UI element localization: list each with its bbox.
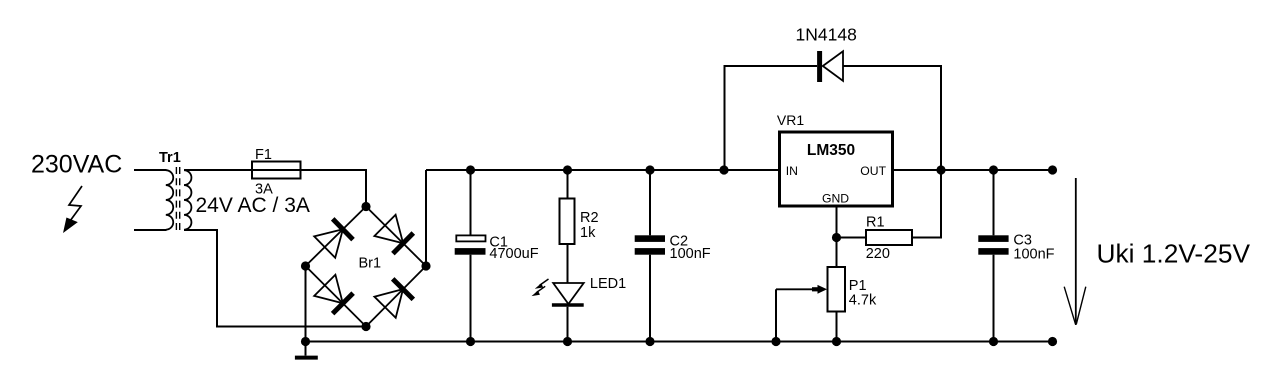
LED1 arrows bbox=[540, 279, 549, 285]
wire diode branch left bbox=[725, 66, 818, 170]
node R2 top bbox=[563, 165, 572, 174]
node LED1 bottom bbox=[563, 337, 572, 346]
regulator VR1 box bbox=[780, 132, 893, 206]
wire out rail bbox=[893, 169, 1053, 171]
svg-text:LED1: LED1 bbox=[590, 276, 626, 292]
node out diode R1 bbox=[936, 165, 945, 174]
svg-text:3A: 3A bbox=[255, 182, 273, 198]
node diode branch left bbox=[719, 165, 728, 174]
svg-text:Uki 1.2V-25V: Uki 1.2V-25V bbox=[1097, 239, 1251, 269]
wire secondary top to fuse bbox=[184, 169, 252, 171]
node bridge right bbox=[421, 261, 430, 270]
diode 1N4148 triangle bbox=[823, 51, 843, 81]
node bridge top bbox=[361, 202, 370, 211]
svg-text:LM350: LM350 bbox=[807, 142, 855, 159]
wire P1 bottom bbox=[836, 312, 838, 342]
resistor R1 bbox=[866, 230, 912, 245]
wire bridge arm left-bottom bbox=[306, 266, 367, 327]
wire R2 to LED1 bbox=[567, 244, 569, 283]
node C1 bottom bbox=[466, 337, 475, 346]
fuse F1 bbox=[252, 169, 301, 171]
wire R1 to out bbox=[912, 67, 941, 238]
wire C1 bottom bbox=[470, 255, 472, 342]
transformer Tr1 primary coil bbox=[166, 170, 173, 230]
node bridge bottom bbox=[361, 322, 370, 331]
bridge diode bottom-right bbox=[374, 289, 403, 318]
node wiper ground bbox=[771, 337, 780, 346]
resistor R2 bbox=[560, 199, 575, 245]
node ground rail at bridge bbox=[301, 337, 310, 346]
wire bottom ground rail bbox=[306, 341, 1053, 343]
wire primary top bbox=[134, 169, 167, 171]
wire LED1 bottom bbox=[567, 307, 569, 342]
svg-text:1N4148: 1N4148 bbox=[796, 25, 857, 45]
wire wiper down bbox=[775, 289, 777, 341]
node bridge left bbox=[301, 261, 310, 270]
wire adj to P1 bbox=[836, 238, 838, 268]
svg-text:Br1: Br1 bbox=[359, 256, 382, 272]
LED1 triangle bbox=[553, 283, 584, 304]
node C3 bottom bbox=[989, 337, 998, 346]
ground symbol bbox=[305, 342, 307, 356]
svg-text:220: 220 bbox=[866, 246, 890, 262]
svg-text:R1: R1 bbox=[866, 215, 885, 231]
svg-text:Tr1: Tr1 bbox=[159, 150, 181, 166]
svg-text:100nF: 100nF bbox=[1013, 247, 1054, 263]
bridge diode top-left bbox=[314, 229, 343, 258]
wire VR1 gnd pin bbox=[836, 206, 838, 238]
mains lightning arrow bbox=[69, 186, 82, 221]
node P1 ground bbox=[832, 337, 841, 346]
wire R2 top bbox=[567, 170, 569, 199]
svg-text:4.7k: 4.7k bbox=[849, 293, 877, 309]
LED1 cathode bar bbox=[552, 303, 584, 306]
node adj bbox=[832, 233, 841, 242]
wire bridge left node to ground rail bbox=[305, 266, 307, 342]
bridge diode bottom-left bbox=[314, 275, 343, 304]
wire adj to R1 bbox=[837, 237, 867, 239]
wire bridge right node up bbox=[425, 170, 427, 266]
transformer Tr1 core bbox=[175, 167, 177, 233]
node C1 top bbox=[466, 165, 475, 174]
node C2 top bbox=[645, 165, 654, 174]
node ground rail end bbox=[1048, 337, 1057, 346]
svg-text:GND: GND bbox=[822, 191, 849, 205]
capacitor C1 plus plate bbox=[456, 235, 485, 241]
capacitor C1 minus plate bbox=[455, 248, 486, 255]
svg-text:R2: R2 bbox=[580, 210, 599, 226]
capacitor C2 plates bbox=[635, 235, 665, 242]
node C3 top bbox=[989, 165, 998, 174]
bridge diode top-right bbox=[374, 215, 403, 244]
node C2 bottom bbox=[645, 337, 654, 346]
wire C3 bottom bbox=[993, 255, 995, 342]
wire secondary bottom bbox=[184, 230, 366, 327]
wire bridge arm top-right bbox=[366, 207, 426, 267]
svg-text:24V AC / 3A: 24V AC / 3A bbox=[196, 194, 310, 217]
wire primary bottom bbox=[134, 229, 167, 231]
transformer Tr1 secondary coil bbox=[184, 170, 191, 230]
svg-text:OUT: OUT bbox=[860, 164, 886, 178]
node out rail end bbox=[1048, 165, 1057, 174]
svg-text:1k: 1k bbox=[580, 225, 596, 241]
wire bridge arm left-top bbox=[306, 207, 367, 267]
svg-text:IN: IN bbox=[786, 164, 798, 178]
wire top rail positive bbox=[426, 169, 780, 171]
wire C1 top bbox=[470, 170, 472, 236]
potentiometer P1 wiper arrow bbox=[776, 288, 818, 290]
capacitor C3 plates bbox=[978, 235, 1008, 242]
potentiometer P1 body bbox=[828, 267, 846, 312]
svg-text:4700uF: 4700uF bbox=[489, 246, 538, 262]
svg-text:VR1: VR1 bbox=[777, 112, 804, 128]
output voltage arrow bbox=[1075, 178, 1077, 325]
wire fuse to bridge bbox=[301, 170, 367, 207]
wire bridge arm bottom-right bbox=[366, 266, 426, 327]
svg-text:100nF: 100nF bbox=[670, 246, 711, 262]
diode 1N4148 cathode bar bbox=[817, 51, 822, 82]
wire diode branch right bbox=[843, 66, 941, 170]
wire C2 top bbox=[649, 170, 651, 235]
svg-text:230VAC: 230VAC bbox=[31, 151, 122, 179]
wire C2 bottom bbox=[649, 255, 651, 342]
wire C3 top bbox=[993, 170, 995, 235]
